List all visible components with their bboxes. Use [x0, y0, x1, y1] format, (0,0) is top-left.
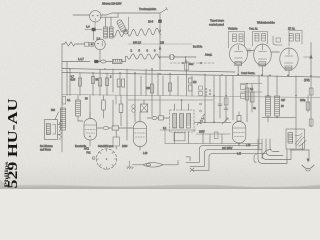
ganged tuning dashed link [170, 62, 215, 64]
wire stub y17 [100, 16, 118, 18]
arrow up on feed [159, 46, 162, 50]
tube AK2 [84, 119, 97, 141]
wire y96 dots [213, 95, 215, 97]
screen resistor column [103, 96, 105, 119]
right bottom switch + earth [299, 141, 306, 147]
main vertical feed x=160 [159, 13, 161, 70]
svg-text:0,05: 0,05 [71, 79, 76, 82]
capacitor C1 blob [92, 28, 96, 31]
left rail [61, 44, 63, 152]
pickup coil box bottom-left [45, 120, 58, 140]
chassis anchor [127, 161, 134, 169]
horizontal line y95 [62, 95, 320, 98]
input wire y57 [62, 61, 90, 63]
wire from V1 to the right [101, 13, 161, 15]
bottom-left corner smudge [0, 180, 10, 189]
zigzag resistor diagonal [197, 114, 205, 125]
right rails [258, 75, 260, 150]
svg-text:Tuned wave: Tuned wave [210, 19, 225, 23]
heater winding W1 wavy [112, 28, 161, 37]
left antenna coil hatched [60, 108, 65, 130]
coupling cap oval [103, 126, 109, 129]
mid columns below bus [134, 73, 136, 122]
svg-text:1,4,7: 1,4,7 [78, 57, 84, 61]
AVC wires [240, 91, 262, 93]
output transformer box with speaker [286, 129, 304, 149]
svg-text:Pt2: Pt2 [87, 151, 91, 155]
wire y122 left of EBC [194, 121, 231, 123]
wire lamp right [174, 56, 196, 58]
connector hooks right [186, 157, 190, 161]
svg-text:ZF. kr.: ZF. kr. [288, 27, 295, 31]
small caps mid-right [218, 104, 222, 106]
crossed box pickup [141, 104, 148, 112]
oscillator coil L1b hatched [109, 27, 113, 38]
svg-text:220p: 220p [300, 99, 306, 102]
svg-text:220: 220 [146, 87, 151, 90]
link wire with corner [273, 36, 282, 45]
chassis bus 2 [62, 73, 320, 78]
tube V1 (top small tube) [90, 11, 101, 22]
svg-text:Ger.: Ger. [189, 63, 194, 66]
chassis bus 4 [240, 83, 262, 85]
IF transformer cluster 3 [289, 31, 302, 47]
tube V3 [230, 44, 248, 64]
svg-text:Allstrom 110-220V: Allstrom 110-220V [102, 3, 122, 6]
tuning capacitor slanted cylinder [116, 19, 127, 33]
long wire y100 [128, 99, 213, 101]
svg-text:Trockengleichr.: Trockengleichr. [139, 7, 157, 11]
svg-text:(7W): (7W) [304, 78, 310, 82]
tube V4 [254, 44, 272, 66]
junction dots on buses [69, 30, 312, 96]
HT arrow right edge [310, 43, 312, 128]
mains fuse lens [143, 163, 163, 168]
svg-text:L43: L43 [143, 151, 148, 155]
svg-text:Schaltbild gez.: Schaltbild gez. [98, 145, 114, 148]
pilot lamp E1 [169, 54, 174, 59]
HF choke box [85, 42, 89, 46]
svg-text:Vorkreis: Vorkreis [228, 27, 238, 31]
right vertical coils [267, 75, 269, 122]
left rail resistor [62, 97, 65, 105]
svg-text:control panel: control panel [209, 23, 224, 27]
svg-text:1M: 1M [193, 81, 196, 84]
paper background [0, 0, 320, 189]
chassis bus 1 [62, 69, 235, 73]
coupling cap box lower [113, 137, 120, 146]
oscillator coil L1a hatched [106, 17, 112, 27]
AF coupling wires [160, 129, 196, 131]
tube V2 circle [95, 39, 106, 50]
switch S1 at top of feed [160, 8, 168, 14]
wire bottom of top-left block [128, 43, 192, 45]
tube cathode drops [238, 66, 289, 76]
oval cap on y57 [101, 60, 106, 63]
IF transformer cluster 1 [229, 32, 245, 49]
capacitor C2 blob on feed [158, 20, 161, 23]
svg-text:Ausgl.: Ausgl. [205, 53, 212, 57]
svg-text:4нF: 4нF [281, 99, 286, 102]
wire W2 to lamp [160, 56, 169, 58]
socket diagram dashed circle [96, 149, 116, 169]
resistor R1 zigzag top-left [62, 42, 78, 46]
bottom edge scan shadow [0, 185, 320, 189]
bandswitch contacts [199, 86, 211, 112]
svg-text:230V: 230V [199, 131, 205, 134]
wire top line left of tube [73, 14, 90, 16]
svg-text:Ersatzteile: Ersatzteile [75, 145, 87, 148]
hook jack [254, 155, 257, 163]
choke blob on y57 [94, 60, 98, 63]
vertical spring resistor [59, 120, 62, 140]
svg-text:4нF 350V: 4нF 350V [222, 147, 233, 150]
wire y117 [262, 116, 296, 118]
resistor box [112, 126, 118, 130]
tube V5 [280, 48, 298, 70]
hatched box on y57 [113, 59, 123, 63]
nested corner wires bottom right [258, 139, 287, 164]
wire V1 down to cap [94, 22, 96, 30]
anode wire AK2 to right [97, 127, 103, 129]
svg-text:Ba Bl Bc: Ba Bl Bc [193, 46, 203, 49]
wire into V2 [78, 43, 95, 45]
svg-text:L45: L45 [237, 153, 242, 156]
svg-text:Cond Germ.: Cond Germ. [241, 71, 255, 75]
svg-text:500: 500 [51, 109, 56, 112]
svg-text:Wellenbereiche: Wellenbereiche [257, 21, 275, 25]
svg-text:Osz. kr.: Osz. kr. [249, 27, 258, 31]
svg-text:1,4: 1,4 [86, 25, 90, 29]
grid-leak area mid-right columns [204, 76, 206, 122]
IF transformer cluster 2 [253, 32, 268, 47]
rail x67 [66, 62, 68, 96]
IF transformer assembly [170, 110, 195, 132]
V2 cathode down [99, 50, 101, 62]
resistor columns below bus [69, 69, 71, 96]
heater winding W2 wavy with taps [127, 54, 160, 59]
svg-text:125: 125 [160, 42, 165, 45]
feedthrough wire [85, 29, 102, 31]
grid coil above AK2 [76, 100, 81, 116]
trimmer circle [124, 30, 128, 34]
wires between tubes [248, 51, 280, 53]
svg-text:20-5: 20-5 [148, 20, 154, 24]
tube EBC3 [232, 122, 245, 144]
columns above [112, 100, 114, 126]
nested corner wires bottom mid [186, 146, 258, 163]
small comps right of AB2 [152, 117, 157, 120]
svg-text:529 HU-AU: 529 HU-AU [6, 99, 21, 189]
svg-text:1936: 1936 [122, 145, 128, 148]
svg-text:380 2,5: 380 2,5 [133, 42, 142, 45]
svg-text:und Werte: und Werte [40, 149, 52, 152]
tube AB2/mixer [133, 122, 146, 147]
